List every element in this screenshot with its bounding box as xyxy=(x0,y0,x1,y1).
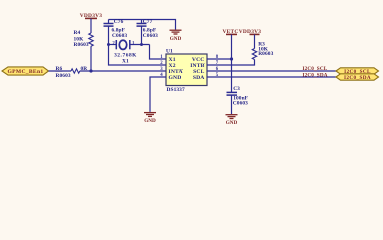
wire port to R6 xyxy=(49,70,72,72)
svg-text:R0603: R0603 xyxy=(258,51,273,57)
junction VCC xyxy=(230,57,233,60)
svg-text:C0603: C0603 xyxy=(233,101,248,107)
pin8 wire VCC xyxy=(207,58,232,60)
port I2C0_SDA xyxy=(336,74,379,81)
svg-text:U1: U1 xyxy=(166,48,173,54)
svg-text:C0603: C0603 xyxy=(112,33,127,39)
svg-text:I2C0_SCL: I2C0_SCL xyxy=(303,66,328,72)
svg-text:GPMC_BEn1: GPMC_BEn1 xyxy=(8,69,44,75)
svg-text:C0603: C0603 xyxy=(143,33,158,39)
resistor R3 xyxy=(252,42,273,60)
wire C3 to GND xyxy=(231,95,233,114)
svg-text:C76: C76 xyxy=(114,19,124,25)
crystal X1 xyxy=(109,40,150,65)
ground (under C3) xyxy=(226,115,238,126)
svg-text:GND: GND xyxy=(144,118,156,124)
resistor R6 xyxy=(56,66,88,79)
svg-text:C3: C3 xyxy=(233,86,240,92)
wire C77 down to crystal node xyxy=(141,26,143,44)
top rail caps to GND xyxy=(109,20,176,30)
wire SDA pin5 xyxy=(207,76,337,78)
svg-text:C77: C77 xyxy=(143,19,153,25)
svg-text:R4: R4 xyxy=(74,30,81,36)
capacitor C77 xyxy=(137,19,159,39)
wire crystal to pin1 of U1 xyxy=(150,45,167,60)
resistor R4 xyxy=(74,30,94,48)
IC U1 DS1337 xyxy=(160,48,219,92)
power VDD3V3 (left) xyxy=(80,13,103,33)
svg-text:X1: X1 xyxy=(122,59,129,65)
svg-text:GND: GND xyxy=(226,120,238,126)
port GPMC_BEn1 xyxy=(2,67,49,75)
wire SCL pin6 xyxy=(207,70,337,72)
wire R3 to INTB pin7 xyxy=(207,60,255,66)
port I2C0_SCL xyxy=(336,68,379,75)
pin4 wire to GND xyxy=(150,77,166,112)
junction crystal left xyxy=(107,43,110,46)
capacitor C3 xyxy=(227,86,249,107)
VCC vertical rail xyxy=(231,34,233,92)
wire C76 down to pin2 of U1 xyxy=(109,26,167,65)
svg-text:R0603: R0603 xyxy=(74,42,89,48)
junction node R4/R6 xyxy=(89,69,92,72)
svg-text:I2C0_SDA: I2C0_SDA xyxy=(303,72,328,78)
svg-text:GND: GND xyxy=(170,36,182,42)
svg-text:I2C0_SDA: I2C0_SDA xyxy=(344,75,371,81)
power VETC xyxy=(223,29,239,35)
ground (bottom left) xyxy=(144,113,156,124)
junction crystal right xyxy=(140,43,143,46)
power VDD3V3 (right) xyxy=(239,29,262,49)
svg-text:DS1337: DS1337 xyxy=(167,87,185,93)
wire R6 to pin3 xyxy=(80,70,166,72)
svg-text:R0603: R0603 xyxy=(56,73,71,79)
wire R4 to junction xyxy=(90,46,92,71)
svg-text:R6: R6 xyxy=(56,66,63,72)
ground (top, crystal caps) xyxy=(170,30,182,42)
svg-text:GND: GND xyxy=(169,75,182,81)
svg-text:SDA: SDA xyxy=(193,75,205,81)
capacitor C76 xyxy=(104,19,128,39)
